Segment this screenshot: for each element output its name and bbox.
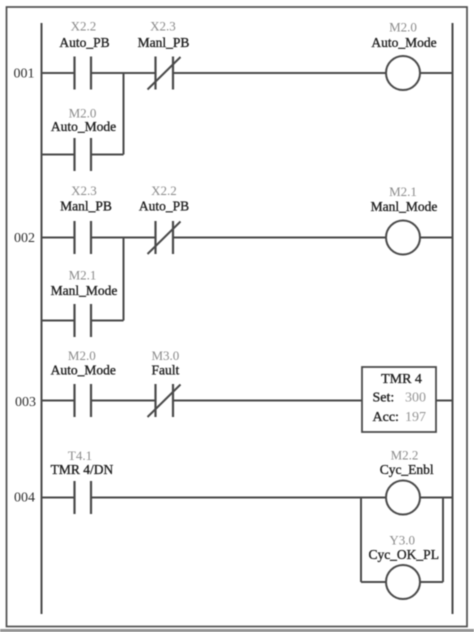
contact X2.2 Auto_PB (NC) bbox=[139, 183, 189, 254]
svg-text:X2.2: X2.2 bbox=[151, 183, 177, 198]
timer TMR 4 bbox=[362, 367, 436, 432]
branch wire rung1 right bbox=[91, 154, 124, 156]
wire rung1 left bbox=[42, 72, 75, 74]
wire rung3 right bbox=[173, 400, 362, 402]
svg-text:M3.0: M3.0 bbox=[151, 348, 179, 363]
branch wire rung1 left bbox=[42, 154, 75, 156]
contact X2.3 Manl_PB (NO) bbox=[60, 183, 112, 254]
wire rung2 right bbox=[173, 237, 386, 239]
coil M2.0 Auto_Mode bbox=[371, 20, 436, 91]
wire rung4 right bbox=[91, 497, 386, 499]
svg-text:M2.0: M2.0 bbox=[389, 20, 417, 35]
svg-text:Auto_PB: Auto_PB bbox=[59, 35, 109, 50]
branch wire rung4 left bbox=[361, 581, 386, 583]
branch wire rung4 vertical right bbox=[442, 498, 444, 583]
svg-text:TMR 4: TMR 4 bbox=[381, 372, 422, 387]
contact M2.0 Auto_Mode (NO seal-in) bbox=[51, 106, 116, 172]
svg-text:Set:: Set: bbox=[373, 391, 395, 406]
svg-text:M2.0: M2.0 bbox=[68, 348, 96, 363]
coil Y3.0 Cyc_OK_PL bbox=[368, 533, 439, 600]
wire rung1 to rail bbox=[420, 72, 453, 74]
wire rung4 left bbox=[42, 497, 75, 499]
wire rung3 to rail bbox=[436, 400, 453, 402]
svg-text:Manl_Mode: Manl_Mode bbox=[371, 199, 438, 214]
contact M2.1 Manl_Mode (NO seal-in) bbox=[51, 268, 118, 338]
right power rail bbox=[452, 23, 454, 614]
svg-text:001: 001 bbox=[14, 67, 35, 82]
branch wire rung2 left bbox=[42, 320, 75, 322]
svg-text:Auto_Mode: Auto_Mode bbox=[371, 35, 436, 50]
branch wire rung1 vertical bbox=[123, 73, 125, 155]
branch wire rung2 right bbox=[91, 320, 124, 322]
svg-text:Acc:: Acc: bbox=[373, 410, 399, 425]
contact T4.1 TMR 4/DN (NO) bbox=[51, 448, 114, 514]
svg-text:Manl_PB: Manl_PB bbox=[60, 199, 112, 214]
svg-text:TMR 4/DN: TMR 4/DN bbox=[51, 462, 114, 477]
svg-text:197: 197 bbox=[405, 410, 426, 425]
coil M2.2 Cyc_Enbl bbox=[380, 448, 434, 515]
wire rung2 mid bbox=[91, 237, 156, 239]
contact M2.0 Auto_Mode (NO) bbox=[51, 348, 116, 417]
left power rail bbox=[41, 23, 43, 614]
svg-text:X2.3: X2.3 bbox=[71, 183, 97, 198]
branch wire rung4 vertical left bbox=[360, 498, 362, 583]
svg-text:Cyc_Enbl: Cyc_Enbl bbox=[380, 462, 434, 477]
svg-text:004: 004 bbox=[14, 491, 35, 506]
svg-text:Manl_PB: Manl_PB bbox=[138, 35, 190, 50]
svg-text:X2.2: X2.2 bbox=[71, 19, 97, 34]
wire rung2 left bbox=[42, 237, 75, 239]
svg-text:Y3.0: Y3.0 bbox=[389, 533, 415, 548]
svg-text:X2.3: X2.3 bbox=[150, 19, 176, 34]
contact X2.2 Auto_PB (NO) bbox=[59, 19, 109, 90]
svg-text:Manl_Mode: Manl_Mode bbox=[51, 283, 118, 298]
svg-text:300: 300 bbox=[405, 391, 426, 406]
contact M3.0 Fault (NC) bbox=[148, 348, 181, 417]
wire rung1 right bbox=[173, 72, 386, 74]
wire rung3 mid bbox=[91, 400, 156, 402]
svg-text:T4.1: T4.1 bbox=[68, 448, 92, 463]
svg-text:003: 003 bbox=[15, 395, 36, 410]
wire rung2 to rail bbox=[420, 237, 453, 239]
svg-text:Auto_Mode: Auto_Mode bbox=[51, 119, 116, 134]
svg-text:M2.2: M2.2 bbox=[391, 448, 419, 463]
svg-text:Cyc_OK_PL: Cyc_OK_PL bbox=[368, 547, 439, 562]
wire rung3 left bbox=[42, 400, 75, 402]
coil M2.1 Manl_Mode bbox=[371, 184, 438, 255]
svg-text:Auto_PB: Auto_PB bbox=[139, 199, 189, 214]
contact X2.3 Manl_PB (NC) bbox=[138, 19, 190, 90]
wire rung1 mid bbox=[91, 72, 156, 74]
branch wire rung2 vertical bbox=[123, 238, 125, 321]
wire rung4 to rail bbox=[420, 497, 453, 499]
svg-text:M2.1: M2.1 bbox=[69, 268, 97, 283]
branch wire rung4 right bbox=[420, 581, 444, 583]
svg-text:Auto_Mode: Auto_Mode bbox=[51, 363, 116, 378]
svg-text:002: 002 bbox=[14, 231, 35, 246]
svg-text:Fault: Fault bbox=[152, 363, 180, 378]
svg-text:M2.1: M2.1 bbox=[389, 184, 417, 199]
